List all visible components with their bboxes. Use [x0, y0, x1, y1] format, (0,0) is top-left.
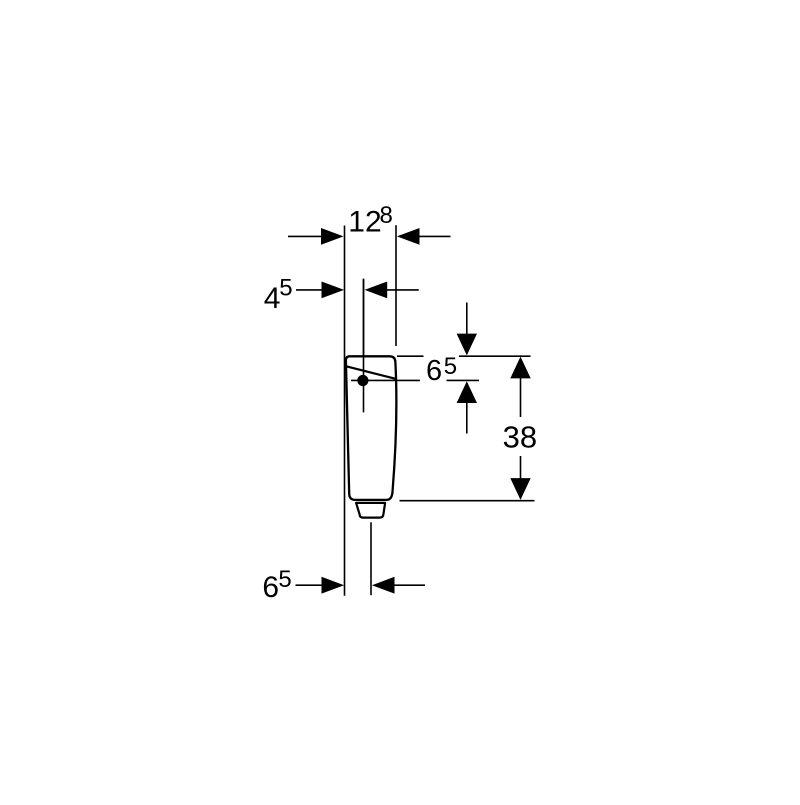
cistern body outline — [346, 356, 396, 500]
svg-text:5: 5 — [279, 275, 292, 302]
svg-text:6: 6 — [262, 571, 279, 604]
dimension 45 right arrow — [365, 282, 419, 299]
dimension 128 right arrow — [397, 228, 451, 245]
spigot outlet — [356, 503, 385, 518]
reference line top of cistern (65/38 top) — [397, 355, 531, 357]
svg-text:5: 5 — [444, 353, 457, 380]
dimension 65 label (bottom) — [262, 566, 291, 604]
reference line through dot (65 bottom) — [351, 379, 479, 381]
extension line middle (right of 45, through dot) — [363, 279, 365, 413]
dimension 45 left arrow — [296, 282, 344, 299]
svg-text:8: 8 — [380, 202, 393, 229]
dimension 45 label — [264, 275, 293, 315]
extension line left (wall line) — [344, 226, 346, 596]
extension line middle redrawn over cistern — [363, 279, 365, 413]
cistern lid diagonal line — [346, 366, 395, 378]
dimension 65 label (middle) — [426, 353, 457, 387]
dimension 128 label — [348, 202, 393, 238]
dimension 128 left arrow — [288, 228, 344, 245]
dimension 38 line with arrows — [510, 357, 530, 500]
dimension 65 bottom left arrow — [296, 577, 345, 594]
svg-text:5: 5 — [278, 566, 291, 593]
inlet dot — [357, 375, 368, 386]
extension line right of 128 — [395, 225, 397, 346]
extension line below spigot — [370, 522, 372, 595]
svg-text:38: 38 — [503, 419, 537, 454]
dimension 65 up arrow — [457, 381, 477, 433]
reference line bottom of cistern (38 bottom) — [400, 500, 535, 502]
dimension 38 label — [503, 419, 537, 454]
dimension 65 bottom right arrow — [372, 577, 425, 594]
svg-text:4: 4 — [264, 282, 281, 315]
dimension 65 down arrow — [457, 303, 477, 356]
svg-text:12: 12 — [348, 205, 381, 238]
svg-text:6: 6 — [426, 355, 442, 387]
